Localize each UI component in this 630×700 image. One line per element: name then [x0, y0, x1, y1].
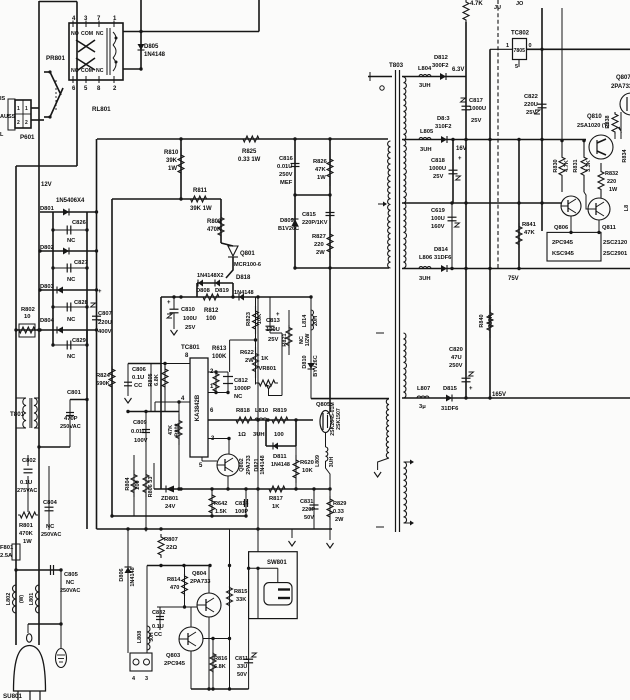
svg-text:NC: NC: [96, 68, 104, 74]
svg-text:8: 8: [185, 353, 189, 359]
svg-text:R804: R804: [125, 476, 131, 490]
svg-text:C805: C805: [64, 572, 79, 578]
svg-text:50V: 50V: [304, 515, 314, 521]
svg-text:KSC945: KSC945: [552, 251, 575, 257]
svg-text:+: +: [167, 300, 171, 306]
svg-text:6.8K: 6.8K: [214, 664, 226, 670]
svg-text:R642: R642: [214, 501, 227, 507]
svg-text:1000P: 1000P: [234, 386, 251, 392]
svg-text:1W: 1W: [609, 187, 618, 193]
svg-text:100P: 100P: [235, 509, 248, 515]
svg-text:R818: R818: [236, 408, 251, 414]
svg-text:0: 0: [529, 43, 532, 49]
svg-text:230K: 230K: [488, 314, 494, 327]
svg-text:3UH: 3UH: [419, 83, 431, 89]
svg-text:D811: D811: [273, 454, 287, 460]
svg-text:R811: R811: [193, 188, 208, 194]
svg-text:R834: R834: [622, 148, 628, 162]
svg-text:6: 6: [72, 86, 76, 92]
svg-text:3: 3: [145, 676, 148, 682]
svg-text:1Ω: 1Ω: [238, 432, 246, 438]
svg-text:L806: L806: [419, 255, 433, 261]
svg-text:1000U: 1000U: [469, 106, 486, 112]
svg-text:C804: C804: [43, 500, 58, 506]
svg-text:2.5A: 2.5A: [0, 553, 13, 559]
svg-text:(W): (W): [19, 595, 25, 603]
svg-text:2: 2: [17, 120, 20, 126]
svg-text:6.3V: 6.3V: [452, 67, 464, 73]
svg-text:100K: 100K: [212, 354, 227, 360]
svg-text:NC: NC: [46, 524, 55, 530]
svg-text:220P/1KV: 220P/1KV: [302, 220, 328, 226]
svg-text:R830: R830: [553, 159, 559, 172]
svg-text:2SC2901: 2SC2901: [603, 251, 628, 257]
svg-text:MEF: MEF: [280, 180, 293, 186]
svg-text:8: 8: [97, 86, 101, 92]
svg-text:L804: L804: [418, 66, 432, 72]
svg-text:4: 4: [132, 676, 136, 682]
svg-text:1K: 1K: [272, 504, 280, 510]
svg-text:C814: C814: [235, 501, 249, 507]
svg-text:250V: 250V: [449, 363, 463, 369]
svg-text:L809: L809: [315, 455, 321, 467]
svg-text:R810: R810: [164, 150, 179, 156]
svg-text:100U: 100U: [431, 216, 445, 222]
svg-text:250VAC: 250VAC: [60, 424, 81, 430]
svg-text:100: 100: [274, 432, 284, 438]
svg-text:TC802: TC802: [511, 31, 530, 37]
svg-text:Q801: Q801: [240, 251, 255, 257]
svg-text:R826: R826: [313, 159, 328, 165]
svg-text:C820: C820: [449, 347, 463, 353]
svg-text:B1V26C: B1V26C: [278, 226, 299, 232]
svg-text:COM: COM: [81, 31, 93, 37]
svg-text:25V: 25V: [185, 325, 195, 331]
svg-text:1N5406X4: 1N5406X4: [56, 198, 85, 204]
svg-text:Q802: Q802: [239, 458, 245, 471]
svg-text:NC: NC: [96, 31, 104, 37]
svg-text:1.5K: 1.5K: [215, 509, 227, 515]
svg-text:VR801: VR801: [259, 366, 278, 372]
svg-text:470K: 470K: [207, 227, 222, 233]
svg-text:TC801: TC801: [181, 344, 200, 351]
svg-text:PR801: PR801: [46, 55, 65, 62]
svg-text:3UH: 3UH: [420, 147, 432, 153]
svg-text:+: +: [458, 156, 462, 162]
svg-text:5: 5: [199, 463, 203, 469]
svg-text:400V: 400V: [98, 329, 112, 335]
svg-text:D804: D804: [40, 318, 55, 324]
svg-text:C817: C817: [469, 98, 483, 104]
svg-text:+: +: [276, 312, 280, 318]
svg-text:D8:3: D8:3: [437, 116, 450, 122]
svg-text:C832: C832: [152, 610, 165, 616]
svg-text:Q806: Q806: [554, 225, 569, 231]
svg-text:D802: D802: [40, 245, 54, 251]
svg-text:R622: R622: [240, 350, 254, 356]
svg-text:6: 6: [210, 408, 214, 414]
svg-text:4: 4: [181, 396, 185, 402]
svg-text:470K: 470K: [19, 531, 34, 537]
svg-text:C809: C809: [133, 420, 148, 426]
svg-text:25V: 25V: [526, 110, 536, 116]
svg-text:R613: R613: [212, 346, 227, 352]
svg-text:160V: 160V: [431, 224, 445, 230]
svg-text:220: 220: [314, 242, 324, 248]
svg-text:2SA1020 (Y): 2SA1020 (Y): [577, 123, 609, 129]
svg-text:L810: L810: [255, 408, 268, 414]
svg-text:0.01U: 0.01U: [277, 164, 292, 170]
svg-text:0.1U: 0.1U: [20, 480, 32, 486]
svg-text:1: 1: [25, 106, 28, 112]
svg-text:39K 1W: 39K 1W: [190, 206, 212, 212]
svg-text:200: 200: [135, 480, 141, 489]
svg-text:1: 1: [506, 43, 509, 49]
svg-text:D809: D809: [280, 218, 295, 224]
svg-text:2SC2120: 2SC2120: [603, 240, 627, 246]
svg-text:16V: 16V: [456, 146, 467, 152]
svg-text:470P: 470P: [64, 416, 78, 422]
svg-text:47K: 47K: [524, 230, 535, 236]
svg-text:L805: L805: [420, 129, 434, 135]
svg-text:2PC945: 2PC945: [164, 661, 186, 667]
svg-text:D818: D818: [236, 275, 251, 281]
svg-text:22Ω: 22Ω: [166, 545, 177, 551]
svg-text:2PA733: 2PA733: [611, 84, 630, 90]
svg-text:2: 2: [25, 120, 28, 126]
svg-text:2PC945: 2PC945: [552, 240, 574, 246]
svg-text:3UH: 3UH: [253, 432, 265, 438]
svg-text:AUSS: AUSS: [0, 114, 16, 120]
svg-text:12V: 12V: [41, 182, 52, 188]
svg-text:R801: R801: [19, 523, 34, 529]
svg-text:Q805: Q805: [316, 402, 331, 408]
svg-text:ZD801: ZD801: [161, 496, 179, 502]
svg-text:C816: C816: [279, 156, 294, 162]
svg-text:1N4148: 1N4148: [130, 567, 136, 586]
svg-text:C801: C801: [67, 390, 82, 396]
svg-text:250VAC: 250VAC: [41, 532, 61, 538]
svg-text:D808: D808: [196, 288, 211, 294]
svg-text:C831: C831: [300, 499, 313, 505]
svg-text:10K: 10K: [302, 468, 313, 474]
svg-text:3UH: 3UH: [329, 457, 335, 468]
svg-text:100V: 100V: [134, 438, 148, 444]
svg-text:25V: 25V: [268, 337, 278, 343]
svg-text:CC: CC: [134, 383, 143, 389]
svg-text:C806: C806: [132, 367, 147, 373]
svg-text:47U: 47U: [451, 355, 462, 361]
svg-text:D805: D805: [144, 44, 159, 50]
svg-text:5: 5: [84, 86, 88, 92]
svg-text:BYV26C: BYV26C: [313, 355, 319, 376]
svg-text:R814: R814: [167, 577, 181, 583]
svg-text:D801: D801: [40, 206, 55, 212]
svg-text:R823: R823: [246, 311, 252, 326]
svg-text:1N4148X2: 1N4148X2: [197, 273, 223, 279]
svg-text:R827: R827: [312, 234, 326, 240]
svg-text:D803: D803: [40, 284, 55, 290]
svg-text:R819: R819: [273, 408, 288, 414]
svg-text:250V: 250V: [279, 172, 293, 178]
svg-text:R831: R831: [573, 159, 579, 172]
svg-text:C810: C810: [181, 307, 195, 313]
svg-text:R840: R840: [479, 314, 485, 327]
svg-text:220U: 220U: [524, 102, 538, 108]
svg-text:C815: C815: [302, 212, 317, 218]
svg-text:NC: NC: [234, 394, 243, 400]
svg-text:5: 5: [515, 64, 518, 70]
svg-text:Q804: Q804: [192, 571, 207, 577]
svg-text:C619: C619: [431, 208, 446, 214]
svg-text:220U: 220U: [98, 320, 112, 326]
svg-text:C829: C829: [72, 338, 87, 344]
svg-text:R829: R829: [333, 501, 346, 507]
svg-text:7805: 7805: [514, 48, 526, 54]
svg-text:R816: R816: [214, 656, 227, 662]
svg-text:C813: C813: [266, 318, 281, 324]
svg-text:P601: P601: [20, 134, 35, 141]
svg-text:JO: JO: [516, 1, 524, 7]
svg-text:L808: L808: [137, 631, 143, 644]
svg-text:Q803: Q803: [166, 653, 181, 659]
svg-text:47K: 47K: [168, 425, 174, 435]
svg-text:31DF6: 31DF6: [441, 406, 459, 412]
svg-text:220: 220: [607, 179, 616, 185]
svg-text:1K: 1K: [261, 356, 269, 362]
svg-text:20H: 20H: [313, 316, 319, 326]
svg-text:NO: NO: [71, 31, 79, 37]
svg-text:1W: 1W: [317, 175, 326, 181]
svg-text:C818: C818: [431, 158, 446, 164]
svg-text:2W: 2W: [335, 517, 344, 523]
svg-text:1W: 1W: [168, 166, 177, 172]
svg-text:R815: R815: [234, 589, 247, 595]
svg-text:C802: C802: [22, 458, 36, 464]
svg-text:R821: R821: [282, 333, 288, 346]
svg-text:2PA733: 2PA733: [190, 579, 211, 585]
svg-text:IS: IS: [0, 96, 6, 102]
svg-text:D819: D819: [215, 288, 230, 294]
svg-text:L801: L801: [29, 593, 35, 606]
svg-text:1/2W: 1/2W: [305, 333, 311, 347]
svg-text:300F2: 300F2: [432, 63, 448, 69]
svg-text:D812: D812: [434, 55, 448, 61]
svg-text:NC: NC: [67, 238, 76, 244]
svg-text:C811: C811: [235, 656, 248, 662]
svg-text:250VAC: 250VAC: [60, 588, 80, 594]
svg-text:0.01U: 0.01U: [131, 429, 146, 435]
svg-text:4.7K: 4.7K: [470, 1, 483, 7]
svg-text:470: 470: [170, 585, 179, 591]
svg-text:690K: 690K: [96, 381, 111, 387]
svg-text:6.8K: 6.8K: [154, 374, 160, 386]
svg-text:39K: 39K: [166, 158, 178, 164]
svg-text:33U: 33U: [237, 664, 247, 670]
svg-text:100U: 100U: [183, 316, 197, 322]
svg-text:NC: NC: [67, 354, 76, 360]
svg-text:310F2: 310F2: [435, 124, 451, 130]
svg-text:L8: L8: [624, 205, 630, 211]
svg-text:SU801: SU801: [3, 693, 22, 700]
svg-text:1W: 1W: [23, 539, 32, 545]
svg-text:L807: L807: [417, 386, 430, 392]
svg-text:47K: 47K: [315, 167, 326, 173]
svg-text:RL801: RL801: [92, 106, 111, 113]
svg-text:+: +: [469, 386, 473, 392]
svg-text:R809: R809: [207, 219, 222, 225]
svg-text:33K: 33K: [236, 597, 246, 603]
svg-text:100: 100: [206, 316, 217, 322]
svg-text:C827: C827: [74, 260, 88, 266]
svg-text:L: L: [0, 132, 4, 138]
svg-text:R824: R824: [96, 373, 111, 379]
svg-text:100U: 100U: [266, 327, 280, 333]
svg-text:1: 1: [17, 106, 20, 112]
svg-text:D806: D806: [119, 568, 125, 581]
svg-text:0.1U: 0.1U: [132, 375, 144, 381]
svg-text:10: 10: [24, 314, 30, 320]
svg-text:R817: R817: [269, 496, 283, 502]
svg-text:R808: R808: [175, 423, 181, 436]
svg-text:31DF6: 31DF6: [434, 255, 452, 261]
svg-text:2W: 2W: [316, 250, 325, 256]
svg-text:165V: 165V: [492, 392, 506, 398]
svg-text:2W: 2W: [245, 358, 254, 364]
svg-text:R812: R812: [204, 308, 219, 314]
svg-text:R806 33: R806 33: [148, 477, 154, 498]
svg-text:R620: R620: [300, 460, 314, 466]
svg-text:KA3842B: KA3842B: [195, 394, 201, 421]
svg-text:R832: R832: [605, 171, 618, 177]
svg-text:C822: C822: [524, 94, 538, 100]
svg-text:NC: NC: [67, 317, 76, 323]
svg-text:Q810: Q810: [587, 114, 602, 120]
svg-text:NC: NC: [66, 580, 75, 586]
svg-text:R841: R841: [522, 222, 537, 228]
svg-text:R802: R802: [21, 307, 35, 313]
svg-text:50V: 50V: [237, 672, 247, 678]
svg-text:D814: D814: [434, 247, 449, 253]
svg-text:2PA733: 2PA733: [246, 455, 252, 474]
svg-text:CC: CC: [154, 632, 162, 638]
svg-text:L814: L814: [302, 314, 308, 327]
svg-text:R807: R807: [164, 537, 178, 543]
svg-text:1N4148: 1N4148: [144, 52, 166, 58]
svg-text:T803: T803: [389, 62, 404, 69]
svg-text:+: +: [98, 289, 102, 295]
svg-text:COM: COM: [81, 68, 93, 74]
svg-text:1N4148: 1N4148: [260, 455, 266, 474]
svg-text:Q811: Q811: [602, 225, 617, 231]
svg-text:24V: 24V: [165, 504, 175, 510]
svg-text:NO: NO: [71, 68, 79, 74]
svg-text:C826: C826: [72, 220, 87, 226]
svg-text:275VAC: 275VAC: [17, 488, 37, 494]
svg-text:25V: 25V: [471, 118, 481, 124]
svg-text:MCR100-6: MCR100-6: [234, 262, 261, 268]
svg-text:D815: D815: [443, 386, 458, 392]
svg-text:Q807: Q807: [616, 75, 630, 81]
svg-text:0.33: 0.33: [333, 509, 344, 515]
svg-text:0.33 1W: 0.33 1W: [238, 157, 261, 163]
svg-text:220P: 220P: [302, 507, 315, 513]
svg-text:C812: C812: [234, 378, 248, 384]
svg-text:4.7K: 4.7K: [564, 160, 570, 172]
svg-text:C828: C828: [74, 300, 89, 306]
svg-text:75V: 75V: [508, 276, 519, 282]
svg-text:1000U: 1000U: [429, 166, 446, 172]
svg-text:NC: NC: [67, 277, 76, 283]
svg-text:2SK1507: 2SK1507: [336, 408, 342, 430]
svg-text:C807: C807: [98, 311, 112, 317]
svg-text:1N4148: 1N4148: [271, 462, 290, 468]
svg-text:D810: D810: [302, 355, 308, 368]
svg-text:2: 2: [113, 86, 117, 92]
svg-text:L802: L802: [6, 593, 12, 606]
svg-text:3μ: 3μ: [419, 404, 426, 410]
svg-text:R825: R825: [242, 149, 257, 155]
svg-text:25V: 25V: [433, 174, 443, 180]
svg-text:SW801: SW801: [267, 560, 287, 566]
svg-text:3UH: 3UH: [419, 276, 431, 282]
svg-text:3.3K: 3.3K: [586, 160, 592, 172]
svg-text:0.1U: 0.1U: [152, 624, 164, 630]
